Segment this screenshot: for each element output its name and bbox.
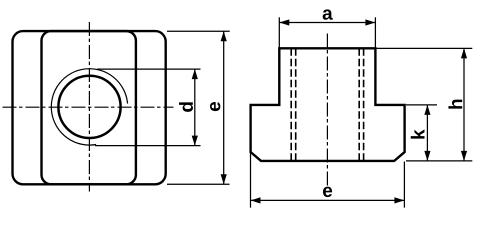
dimension a extension line right — [374, 17, 376, 48]
label h — [448, 100, 462, 109]
thread major-diameter thin arc — [51, 69, 127, 145]
dimension e (front view) arrow left — [251, 197, 261, 203]
dimension e (front view) arrow right — [394, 197, 404, 203]
dimension d extension line top — [97, 68, 201, 70]
label e (top view) — [210, 102, 220, 111]
dimension e (top view) extension line bottom — [167, 183, 230, 185]
dimension h extension line top — [377, 47, 473, 49]
dimension h extension line bottom — [406, 160, 472, 162]
dimension d arrow up — [192, 69, 198, 79]
dimension d extension line bottom — [95, 145, 201, 147]
dimension a arrow right — [365, 19, 375, 25]
label e (front view) — [323, 187, 332, 197]
hidden line thread minor left — [295, 48, 297, 161]
top view boss outline — [42, 31, 136, 184]
vertical centerline (front view) — [326, 34, 328, 187]
dimension e (front view) extension line right — [403, 162, 405, 208]
label a — [323, 9, 333, 19]
tapped hole minor-diameter circle — [58, 76, 120, 138]
dimension k line — [426, 105, 428, 161]
label d — [179, 102, 193, 112]
dimension e (top view) arrow up — [221, 31, 227, 41]
top view outer body outline — [13, 31, 166, 184]
dimension e (front view) extension line left — [250, 153, 252, 208]
label k — [411, 129, 425, 138]
dimension e (front view) line — [251, 199, 405, 201]
dimension k arrow up — [424, 105, 430, 115]
hidden line thread major right — [363, 48, 365, 161]
dimension e (top view) extension line top — [167, 30, 230, 32]
hidden line thread major left — [290, 48, 292, 161]
dimension k extension line top — [406, 104, 437, 106]
dimension a line — [279, 22, 375, 24]
dimension d line — [194, 69, 196, 146]
vertical centerline (top view) — [88, 22, 90, 192]
hidden line thread minor right — [358, 48, 360, 161]
dimension h arrow down — [461, 151, 467, 161]
dimension e (top view) line — [223, 31, 225, 184]
dimension d arrow down — [192, 136, 198, 146]
dimension h line — [463, 48, 465, 160]
dimension h arrow up — [461, 48, 467, 58]
front view T-nut profile outline — [251, 48, 405, 161]
dimension a extension line left — [278, 17, 280, 48]
dimension a arrow left — [279, 19, 289, 25]
dimension k arrow down — [424, 151, 430, 161]
horizontal centerline (top view) — [3, 106, 174, 108]
dimension e (top view) arrow down — [221, 174, 227, 184]
